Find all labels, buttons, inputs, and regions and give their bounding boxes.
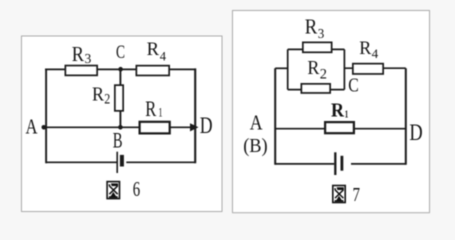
svg-text:6: 6: [133, 177, 140, 201]
svg-text:A: A: [250, 111, 263, 135]
svg-text:3: 3: [318, 26, 325, 41]
svg-text:4: 4: [160, 49, 167, 64]
svg-text:R: R: [92, 84, 105, 106]
svg-text:1: 1: [345, 109, 349, 121]
svg-text:1: 1: [158, 104, 162, 119]
svg-text:R: R: [72, 42, 85, 66]
svg-text:R: R: [145, 96, 156, 121]
svg-text:4: 4: [372, 47, 379, 61]
svg-text:A: A: [26, 114, 39, 138]
svg-text:(B): (B): [243, 135, 268, 157]
svg-text:D: D: [200, 113, 213, 138]
svg-text:3: 3: [85, 51, 92, 66]
svg-text:C: C: [348, 74, 359, 96]
svg-text:2: 2: [104, 91, 110, 107]
svg-text:R: R: [307, 57, 319, 79]
svg-text:D: D: [409, 120, 422, 145]
svg-text:R: R: [331, 100, 344, 122]
svg-text:2: 2: [320, 67, 327, 83]
svg-text:B: B: [113, 127, 123, 152]
svg-text:R: R: [359, 39, 372, 59]
svg-text:C: C: [116, 43, 125, 63]
svg-text:R: R: [147, 39, 160, 60]
svg-text:7: 7: [353, 184, 361, 206]
svg-text:R: R: [305, 14, 318, 38]
